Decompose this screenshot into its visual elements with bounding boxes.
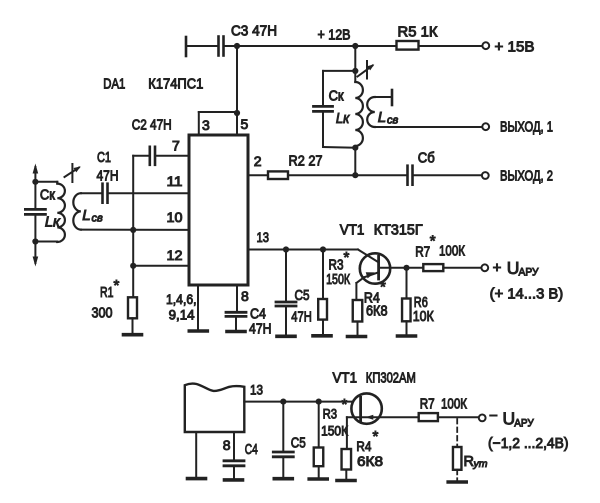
svg-text:+: + xyxy=(493,259,502,276)
svg-text:ВЫХОД, 2: ВЫХОД, 2 xyxy=(500,169,553,185)
svg-text:1,4,6,: 1,4,6, xyxy=(166,292,197,307)
svg-text:DA1: DA1 xyxy=(103,76,125,92)
svg-text:С5: С5 xyxy=(295,288,310,304)
svg-text:5: 5 xyxy=(241,116,249,132)
svg-text:VT1: VT1 xyxy=(340,222,365,238)
svg-text:11: 11 xyxy=(167,173,183,189)
svg-text:8: 8 xyxy=(223,437,231,453)
svg-text:10К: 10К xyxy=(413,309,434,325)
svg-text:L: L xyxy=(82,207,90,224)
svg-text:13: 13 xyxy=(257,229,270,245)
svg-text:Ск: Ск xyxy=(40,188,56,204)
svg-text:10: 10 xyxy=(167,209,183,225)
svg-text:L: L xyxy=(378,109,386,126)
svg-text:R4: R4 xyxy=(356,438,371,454)
svg-text:R1: R1 xyxy=(100,285,114,301)
svg-text:С4: С4 xyxy=(250,306,266,322)
svg-text:6К8: 6К8 xyxy=(366,304,388,320)
svg-text:7: 7 xyxy=(172,138,180,154)
svg-text:С2 47Н: С2 47Н xyxy=(132,118,172,134)
svg-text:6К8: 6К8 xyxy=(357,453,383,469)
svg-text:Lк: Lк xyxy=(45,215,61,231)
svg-text:9,14: 9,14 xyxy=(169,307,195,322)
svg-text:*: * xyxy=(373,428,379,445)
svg-text:+ 12В: + 12В xyxy=(318,28,351,44)
svg-text:АРУ: АРУ xyxy=(514,418,534,430)
svg-text:Lк: Lк xyxy=(336,111,351,127)
svg-text:Сб: Сб xyxy=(418,151,435,167)
svg-text:С3 47Н: С3 47Н xyxy=(231,24,277,40)
svg-text:2: 2 xyxy=(254,153,262,169)
svg-text:С1: С1 xyxy=(97,150,111,166)
svg-text:*: * xyxy=(342,396,348,413)
svg-text:3: 3 xyxy=(202,117,210,133)
svg-text:*: * xyxy=(344,249,350,266)
svg-text:КТ315Г: КТ315Г xyxy=(374,222,423,238)
svg-text:АРУ: АРУ xyxy=(519,267,540,279)
svg-text:ВЫХОД, 1: ВЫХОД, 1 xyxy=(500,120,553,136)
svg-text:Ск: Ск xyxy=(329,89,345,105)
svg-text:100К: 100К xyxy=(439,244,465,260)
svg-text:R7: R7 xyxy=(415,245,430,261)
svg-text:св: св xyxy=(387,115,399,127)
svg-text:+ 15В: + 15В xyxy=(495,40,535,56)
svg-text:12: 12 xyxy=(167,247,183,263)
svg-text:47Н: 47Н xyxy=(97,169,119,185)
svg-text:R7: R7 xyxy=(420,397,435,413)
svg-text:300: 300 xyxy=(92,305,113,321)
svg-text:С5: С5 xyxy=(291,436,306,452)
svg-text:св: св xyxy=(92,213,104,225)
svg-text:К174ПС1: К174ПС1 xyxy=(148,76,203,92)
svg-text:8: 8 xyxy=(241,288,249,304)
svg-text:(−1,2 ...2,4В): (−1,2 ...2,4В) xyxy=(488,436,569,452)
svg-text:С4: С4 xyxy=(245,442,258,458)
svg-text:КП302АМ: КП302АМ xyxy=(366,371,416,387)
svg-text:(+ 14...3 В): (+ 14...3 В) xyxy=(490,287,564,303)
svg-text:ут: ут xyxy=(473,458,488,470)
svg-text:150К: 150К xyxy=(321,424,348,439)
svg-text:13: 13 xyxy=(250,382,263,398)
svg-text:*: * xyxy=(430,232,436,249)
svg-text:R: R xyxy=(464,454,474,470)
svg-text:−: − xyxy=(489,408,498,425)
svg-text:47Н: 47Н xyxy=(291,310,312,326)
svg-text:*: * xyxy=(380,279,386,296)
svg-text:VT1: VT1 xyxy=(333,371,358,387)
svg-text:R3: R3 xyxy=(323,406,338,422)
svg-text:100К: 100К xyxy=(441,397,467,413)
svg-text:R5 1К: R5 1К xyxy=(398,25,439,41)
svg-text:R2 27: R2 27 xyxy=(289,153,323,169)
svg-text:150К: 150К xyxy=(326,272,350,288)
svg-text:*: * xyxy=(114,277,120,294)
svg-text:47Н: 47Н xyxy=(249,321,272,337)
